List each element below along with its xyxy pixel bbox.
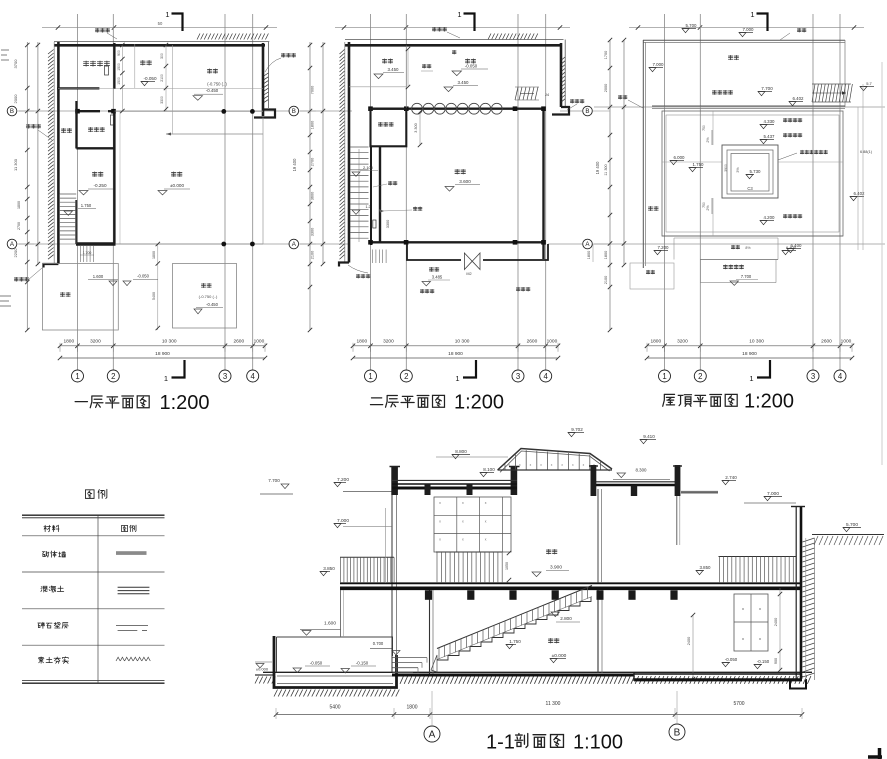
plan3 roof outline left <box>643 40 645 268</box>
section right roof left column <box>589 465 598 496</box>
svg-text:1050: 1050 <box>505 562 509 570</box>
section left wall <box>392 495 397 672</box>
plan2 upper stair hatch <box>515 87 550 100</box>
plan2 porch steps <box>373 250 387 264</box>
plan3 axis bubble A <box>583 239 610 249</box>
svg-text:1:200: 1:200 <box>160 392 210 414</box>
section pool elev b <box>341 661 376 674</box>
plan3 canopy bottom label <box>723 265 758 286</box>
plan2 outer wall right <box>552 40 569 115</box>
plan3 roof outline right <box>844 40 846 107</box>
plan2 grid bubbles 1-4 <box>365 370 552 382</box>
svg-text:18 900: 18 900 <box>742 351 757 357</box>
svg-text:6.88(1): 6.88(1) <box>860 150 873 154</box>
plan1 flower bed <box>42 264 118 331</box>
svg-text:3900: 3900 <box>724 164 728 172</box>
legend column divider <box>97 515 99 683</box>
section stair elev 2800 <box>551 612 580 622</box>
plan2 elev 3850 <box>444 80 478 92</box>
svg-text:1:200: 1:200 <box>454 392 504 414</box>
plan3 skylight leader note <box>778 150 873 160</box>
plan2 section cut mark bottom <box>455 360 476 383</box>
plan3 skylight mid <box>727 150 773 194</box>
svg-text:1800: 1800 <box>356 338 367 344</box>
section roof slab <box>392 484 517 488</box>
plan3 slope note 1 <box>760 118 802 128</box>
svg-text:2.800: 2.800 <box>560 616 572 621</box>
section entry steps <box>393 658 428 673</box>
svg-text:5.7: 5.7 <box>866 81 872 86</box>
svg-text:3.850: 3.850 <box>700 565 712 570</box>
plan2 handrail note 1 <box>373 181 397 187</box>
svg-text:6.402: 6.402 <box>854 191 866 196</box>
plan2 axis line A <box>300 243 582 245</box>
section right floor slab <box>634 672 802 681</box>
section far left elev 7700 <box>260 478 293 494</box>
section elev 7000 mark <box>334 518 392 528</box>
plan1 toilet left wall <box>75 101 77 149</box>
svg-text:2000: 2000 <box>604 84 608 92</box>
svg-text:x: x <box>485 538 487 542</box>
svg-text:1.750: 1.750 <box>693 162 705 167</box>
section balcony railing <box>340 557 394 583</box>
section terrace edge line <box>677 496 680 545</box>
svg-text:2100: 2100 <box>604 276 608 284</box>
plan1 hall inner edge <box>119 111 121 244</box>
svg-text:1800: 1800 <box>604 251 608 259</box>
svg-text:1000: 1000 <box>841 338 852 344</box>
legend row1 label qitiqiang <box>42 551 65 557</box>
svg-text:2%: 2% <box>706 205 710 211</box>
plan2 hall top wall <box>371 107 544 109</box>
svg-text:3%: 3% <box>736 167 740 173</box>
svg-text:7.700: 7.700 <box>761 86 773 91</box>
svg-text:5.730: 5.730 <box>750 169 762 174</box>
svg-text:x: x <box>462 538 464 542</box>
section caption 1-1 poumiantu 1:100 <box>486 732 623 754</box>
svg-text:B: B <box>585 108 589 115</box>
plan3 elev 6402 right <box>850 191 865 201</box>
svg-text:1.750: 1.750 <box>509 639 521 644</box>
svg-text:7.200: 7.200 <box>658 245 670 250</box>
plan2 stair shaft door <box>373 220 376 228</box>
section stair well railing <box>436 552 503 583</box>
svg-text:900: 900 <box>117 50 121 56</box>
svg-text:11 300: 11 300 <box>546 701 561 707</box>
svg-text:1: 1 <box>749 374 753 383</box>
svg-text:2: 2 <box>111 372 115 381</box>
svg-text:B: B <box>10 108 14 115</box>
svg-text:2400: 2400 <box>774 618 778 626</box>
svg-text:8.300: 8.300 <box>636 468 648 473</box>
svg-text:5.437: 5.437 <box>764 134 776 139</box>
section right tall wall <box>791 507 805 680</box>
plan1 axis line A <box>19 243 290 245</box>
svg-text:(-0.750 (..): (-0.750 (..) <box>199 294 218 299</box>
plan1 left dim chain <box>13 42 40 332</box>
plan2 top dim line <box>335 25 570 29</box>
svg-text:-0.150: -0.150 <box>757 659 770 664</box>
svg-text:2600: 2600 <box>233 338 244 344</box>
plan1 note bottom-left <box>14 268 42 281</box>
section axis bubble A <box>424 691 440 742</box>
svg-text:B: B <box>674 728 681 739</box>
svg-text:3: 3 <box>811 372 815 381</box>
section pool elev a <box>293 661 330 673</box>
svg-text:3200: 3200 <box>90 338 101 344</box>
svg-text:±0.000: ±0.000 <box>170 183 184 188</box>
plan1 column B3 <box>221 109 226 114</box>
plan2 axis line B <box>300 110 582 112</box>
plan2 outer wall top <box>345 40 564 46</box>
plan1 grid bubbles 1-4 <box>72 370 259 382</box>
legend row3 symbol gravel <box>116 626 148 631</box>
svg-text:11 300: 11 300 <box>13 158 18 171</box>
svg-text:5.700: 5.700 <box>846 522 858 528</box>
svg-text:8%: 8% <box>745 246 751 250</box>
plan1 column B4 <box>250 109 255 114</box>
plan1 hall top edge <box>114 110 263 112</box>
svg-text:10 300: 10 300 <box>162 338 177 344</box>
svg-text:1800: 1800 <box>650 338 661 344</box>
plan1 column grid lines <box>78 14 253 370</box>
svg-text:1: 1 <box>662 372 666 381</box>
plan1 exterior hatch top <box>197 34 268 40</box>
plan1 stair flight <box>60 194 77 244</box>
svg-text:6.400: 6.400 <box>786 245 797 250</box>
svg-text:1500: 1500 <box>117 63 121 71</box>
svg-text:±0.000: ±0.000 <box>552 653 567 659</box>
plan1 porch elev2 <box>123 274 158 286</box>
plan2 toilet label <box>378 122 393 126</box>
svg-text:7.200: 7.200 <box>337 477 349 483</box>
section right stair railing <box>719 557 797 584</box>
plan2 platform dim line <box>406 47 433 89</box>
svg-text:1: 1 <box>457 10 461 19</box>
svg-text:1800: 1800 <box>17 201 21 209</box>
plan1 column A3 <box>221 242 226 247</box>
plan1 room label 2 <box>140 60 157 85</box>
section right earth hatch <box>803 538 815 680</box>
svg-text:-0.450: -0.450 <box>206 302 219 307</box>
section pool elev 1600 <box>300 621 341 636</box>
plan1 outer wall bottom-left step <box>44 264 59 268</box>
svg-text:3600: 3600 <box>311 192 315 200</box>
plan1 interior dim columns <box>117 43 168 113</box>
svg-text:1:200: 1:200 <box>744 391 794 413</box>
plan1 axis bubble B <box>7 106 34 116</box>
section axis bubble B <box>669 691 685 740</box>
plan1 caption yiceng pingmiantu 1:200 <box>75 392 209 414</box>
svg-text:-0.250: -0.250 <box>93 183 106 188</box>
svg-text:1800: 1800 <box>63 338 74 344</box>
svg-text:1500: 1500 <box>117 77 121 85</box>
plan1 flower bed label <box>60 292 70 296</box>
page left edge artifact 2 <box>0 296 11 306</box>
svg-text:2600: 2600 <box>821 338 832 344</box>
svg-text:1: 1 <box>750 10 754 19</box>
svg-text:1-1: 1-1 <box>486 732 515 754</box>
svg-text:x: x <box>439 519 441 523</box>
plan3 slope note 2 <box>760 133 802 143</box>
plan1 pool lower labels <box>194 283 223 313</box>
section elev 8100 <box>480 467 495 477</box>
section balcony support column <box>341 590 344 637</box>
svg-text:1800: 1800 <box>406 705 417 711</box>
plan3 skylight labels <box>746 169 761 191</box>
svg-text:1: 1 <box>455 374 459 383</box>
svg-text:2400: 2400 <box>687 637 691 645</box>
legend row line 3 <box>22 608 165 610</box>
plan2 hall label <box>445 169 480 191</box>
section elev 8800 <box>436 449 508 459</box>
plan2 caption erceng pingmiantu 1:200 <box>370 392 504 414</box>
plan2 note bottom-left <box>348 265 370 278</box>
svg-text:x: x <box>439 538 441 542</box>
section right wall footing <box>790 679 806 689</box>
svg-text:-0.450: -0.450 <box>206 88 219 93</box>
plan1 toilet top wall <box>75 109 116 114</box>
plan1 left room label <box>79 172 113 195</box>
legend row line 4 <box>22 644 165 646</box>
svg-text:(-0.750 (..): (-0.750 (..) <box>207 82 227 87</box>
legend row2 label hunningtu <box>41 586 64 592</box>
plan2 column B1 <box>368 106 373 111</box>
page corner mark <box>868 748 882 759</box>
svg-text:4.200: 4.200 <box>764 215 776 220</box>
svg-text:1000: 1000 <box>254 338 265 344</box>
plan2 column A4 <box>541 240 546 245</box>
plan3 elev 6000 <box>670 155 685 165</box>
svg-text:M2: M2 <box>466 272 471 276</box>
plan2 note bottom2 <box>420 287 530 293</box>
plan1 note left <box>26 124 52 140</box>
plan3 skylight inner <box>731 154 769 192</box>
plan3 section cut mark top <box>750 10 767 31</box>
legend row3 label suishidianceng <box>38 622 69 628</box>
section ground hatch <box>255 676 811 684</box>
section pool inner bottom <box>277 683 393 685</box>
plan3 roof outline top <box>643 40 845 42</box>
svg-text:1: 1 <box>164 374 168 383</box>
plan1 pool edge upper <box>166 133 263 136</box>
plan2 hall left wall <box>371 146 380 245</box>
plan1 entrance steps <box>81 246 94 262</box>
svg-text:1.700: 1.700 <box>83 251 92 255</box>
plan1 hall right edge <box>262 118 264 245</box>
svg-text:1.600: 1.600 <box>324 621 336 627</box>
plan1 axis bubble A <box>7 239 34 249</box>
plan2 column B3 <box>513 106 518 111</box>
section interior floor slab <box>392 674 634 677</box>
svg-text:2100: 2100 <box>311 251 315 259</box>
plan2 platform edge line <box>349 86 406 88</box>
plan1 hall label <box>158 172 190 195</box>
legend row4 symbol tamped earth <box>116 657 150 661</box>
plan1 bottom dimension chain <box>58 338 267 360</box>
section elev 7000 right <box>744 491 796 503</box>
svg-text:3: 3 <box>223 372 227 381</box>
plan2 column A2 <box>404 240 409 245</box>
svg-text:2700: 2700 <box>17 222 21 230</box>
section hall label 2F <box>532 549 569 576</box>
svg-text:3300: 3300 <box>386 220 390 228</box>
plan1 toilet bottom wall <box>76 147 115 149</box>
legend header cailiao <box>44 525 59 532</box>
svg-text:1800: 1800 <box>587 251 591 259</box>
plan3 glass canopy label <box>712 86 804 106</box>
plan2 hall right wall <box>542 109 544 259</box>
svg-text:3 300: 3 300 <box>414 123 418 133</box>
svg-text:±0.000: ±0.000 <box>256 667 269 672</box>
section right roof slab <box>592 482 678 485</box>
svg-text:2600: 2600 <box>527 338 538 344</box>
svg-text:B: B <box>292 108 296 115</box>
section pool under hatch <box>274 690 399 697</box>
plan2 stair flight <box>350 147 369 242</box>
svg-text:6.402: 6.402 <box>793 96 805 101</box>
svg-text:2: 2 <box>404 372 408 381</box>
plan3 axis line B <box>594 106 885 108</box>
plan2 folding door arcs <box>412 103 503 114</box>
svg-text:2.740: 2.740 <box>725 475 737 480</box>
svg-text:5.700: 5.700 <box>686 23 698 28</box>
svg-text:3200: 3200 <box>383 338 394 344</box>
svg-text:750: 750 <box>702 202 706 208</box>
svg-text:2.100: 2.100 <box>363 165 374 170</box>
plan3 bottom left details <box>630 263 674 289</box>
section roof stub beams <box>425 484 473 496</box>
legend row4 label sutuhangshi <box>38 657 68 664</box>
plan3 axis bubble B <box>583 106 610 116</box>
plan1 porch elev <box>88 274 118 286</box>
svg-text:18 900: 18 900 <box>448 351 463 357</box>
svg-text:3.450: 3.450 <box>458 80 470 85</box>
plan3 grid bubbles 1-4 <box>659 370 847 382</box>
section hall label 1F <box>548 638 566 662</box>
plan1 outer wall right <box>254 42 275 118</box>
plan2 porch door bowtie <box>464 253 480 270</box>
svg-text:3.900: 3.900 <box>550 565 562 571</box>
plan1 wc divider <box>134 44 136 88</box>
plan2 outer wall bottom-left step <box>339 263 349 267</box>
svg-text:0.700: 0.700 <box>373 641 384 646</box>
plan3 center slope marks <box>706 130 740 214</box>
svg-text:3.850: 3.850 <box>323 566 335 571</box>
svg-text:2100: 2100 <box>160 74 164 82</box>
section second floor slab <box>340 583 802 588</box>
plan2 hall bottom wall <box>371 241 544 243</box>
svg-text:3: 3 <box>516 372 520 381</box>
svg-text:10 300: 10 300 <box>455 338 470 344</box>
plan2 axis bubble B <box>289 106 316 116</box>
section roof mid column <box>509 466 520 495</box>
plan2 outer wall left <box>340 42 350 263</box>
plan1 hall bottom wall <box>76 242 263 245</box>
section pool tub <box>274 636 397 688</box>
svg-text:8.100: 8.100 <box>483 467 495 472</box>
legend table bottom border <box>22 680 165 683</box>
svg-text:5700: 5700 <box>733 701 744 707</box>
svg-text:A: A <box>429 730 436 741</box>
svg-text:3200: 3200 <box>677 338 688 344</box>
plan1 equip door leaf <box>105 66 109 75</box>
plan2 column grid lines <box>371 14 546 370</box>
svg-text:x: x <box>485 519 487 523</box>
svg-text:1700: 1700 <box>604 51 608 59</box>
svg-text:-0.050: -0.050 <box>137 274 150 279</box>
plan1 hall left wall <box>113 111 115 244</box>
svg-text:4: 4 <box>251 372 256 381</box>
svg-text:5400: 5400 <box>329 705 340 711</box>
legend row2 symbol concrete <box>118 587 150 593</box>
section clerestory elev 9410 <box>640 434 656 444</box>
plan2 porch dim <box>587 244 593 262</box>
svg-text:4: 4 <box>838 372 843 381</box>
plan2 handrail note 2 <box>379 207 422 213</box>
legend title tuli <box>85 489 106 498</box>
plan2 section cut mark top <box>457 10 474 31</box>
plan2 porch labels <box>422 267 472 286</box>
plan1 pool label top <box>193 69 227 100</box>
section hall right wall 1F <box>597 590 604 673</box>
section elev 2740 <box>681 475 737 493</box>
plan1 equip room label <box>83 61 109 66</box>
legend row line 2 <box>22 571 165 573</box>
plan2 platform divider <box>405 46 407 109</box>
svg-text:2: 2 <box>698 372 702 381</box>
plan2 stair elev low <box>352 205 371 214</box>
section right roof right column <box>673 465 682 496</box>
section balcony elev <box>320 566 335 576</box>
section bottom dimension chain <box>274 701 804 719</box>
svg-text:11 300: 11 300 <box>604 164 608 175</box>
section right room elev a <box>722 657 738 667</box>
legend row line 1 <box>22 535 165 537</box>
plan2 note top <box>432 27 460 38</box>
plan3 top labels <box>682 23 806 40</box>
svg-text:2700: 2700 <box>311 158 315 166</box>
plan3 section cut mark bottom <box>749 360 770 383</box>
svg-text:1: 1 <box>368 372 372 381</box>
plan3 right aux verticals <box>858 84 863 250</box>
plan3 caption wuding pingmiantu 1:200 <box>663 391 794 413</box>
svg-text:7.000: 7.000 <box>337 518 349 524</box>
plan3 elev 7200 left <box>654 245 669 255</box>
section right room window <box>734 594 768 651</box>
svg-text:300: 300 <box>160 53 164 59</box>
plan1 top dim line <box>42 21 277 30</box>
plan3 note left mid <box>618 95 643 108</box>
section right stair elev <box>696 565 711 575</box>
section right room elev b <box>754 659 770 669</box>
section elev pm0 <box>255 662 272 672</box>
svg-text:-0.050: -0.050 <box>725 657 738 662</box>
svg-text:900: 900 <box>774 658 778 664</box>
plan3 roof center verticals <box>712 111 714 236</box>
svg-text:1800: 1800 <box>152 251 156 259</box>
svg-text:1.600: 1.600 <box>93 274 104 279</box>
plan2 dim 3300 vert <box>386 220 390 228</box>
plan2 toilet room <box>371 109 407 147</box>
plan3 top dim line <box>629 25 864 29</box>
svg-text:750: 750 <box>702 125 706 131</box>
plan3 inner vert dims <box>702 125 728 208</box>
plan3 elev 640 mid <box>787 243 802 253</box>
plan1 partition equip room <box>57 43 114 89</box>
svg-text:3.600: 3.600 <box>459 179 471 184</box>
plan1 pool lower <box>173 264 237 329</box>
